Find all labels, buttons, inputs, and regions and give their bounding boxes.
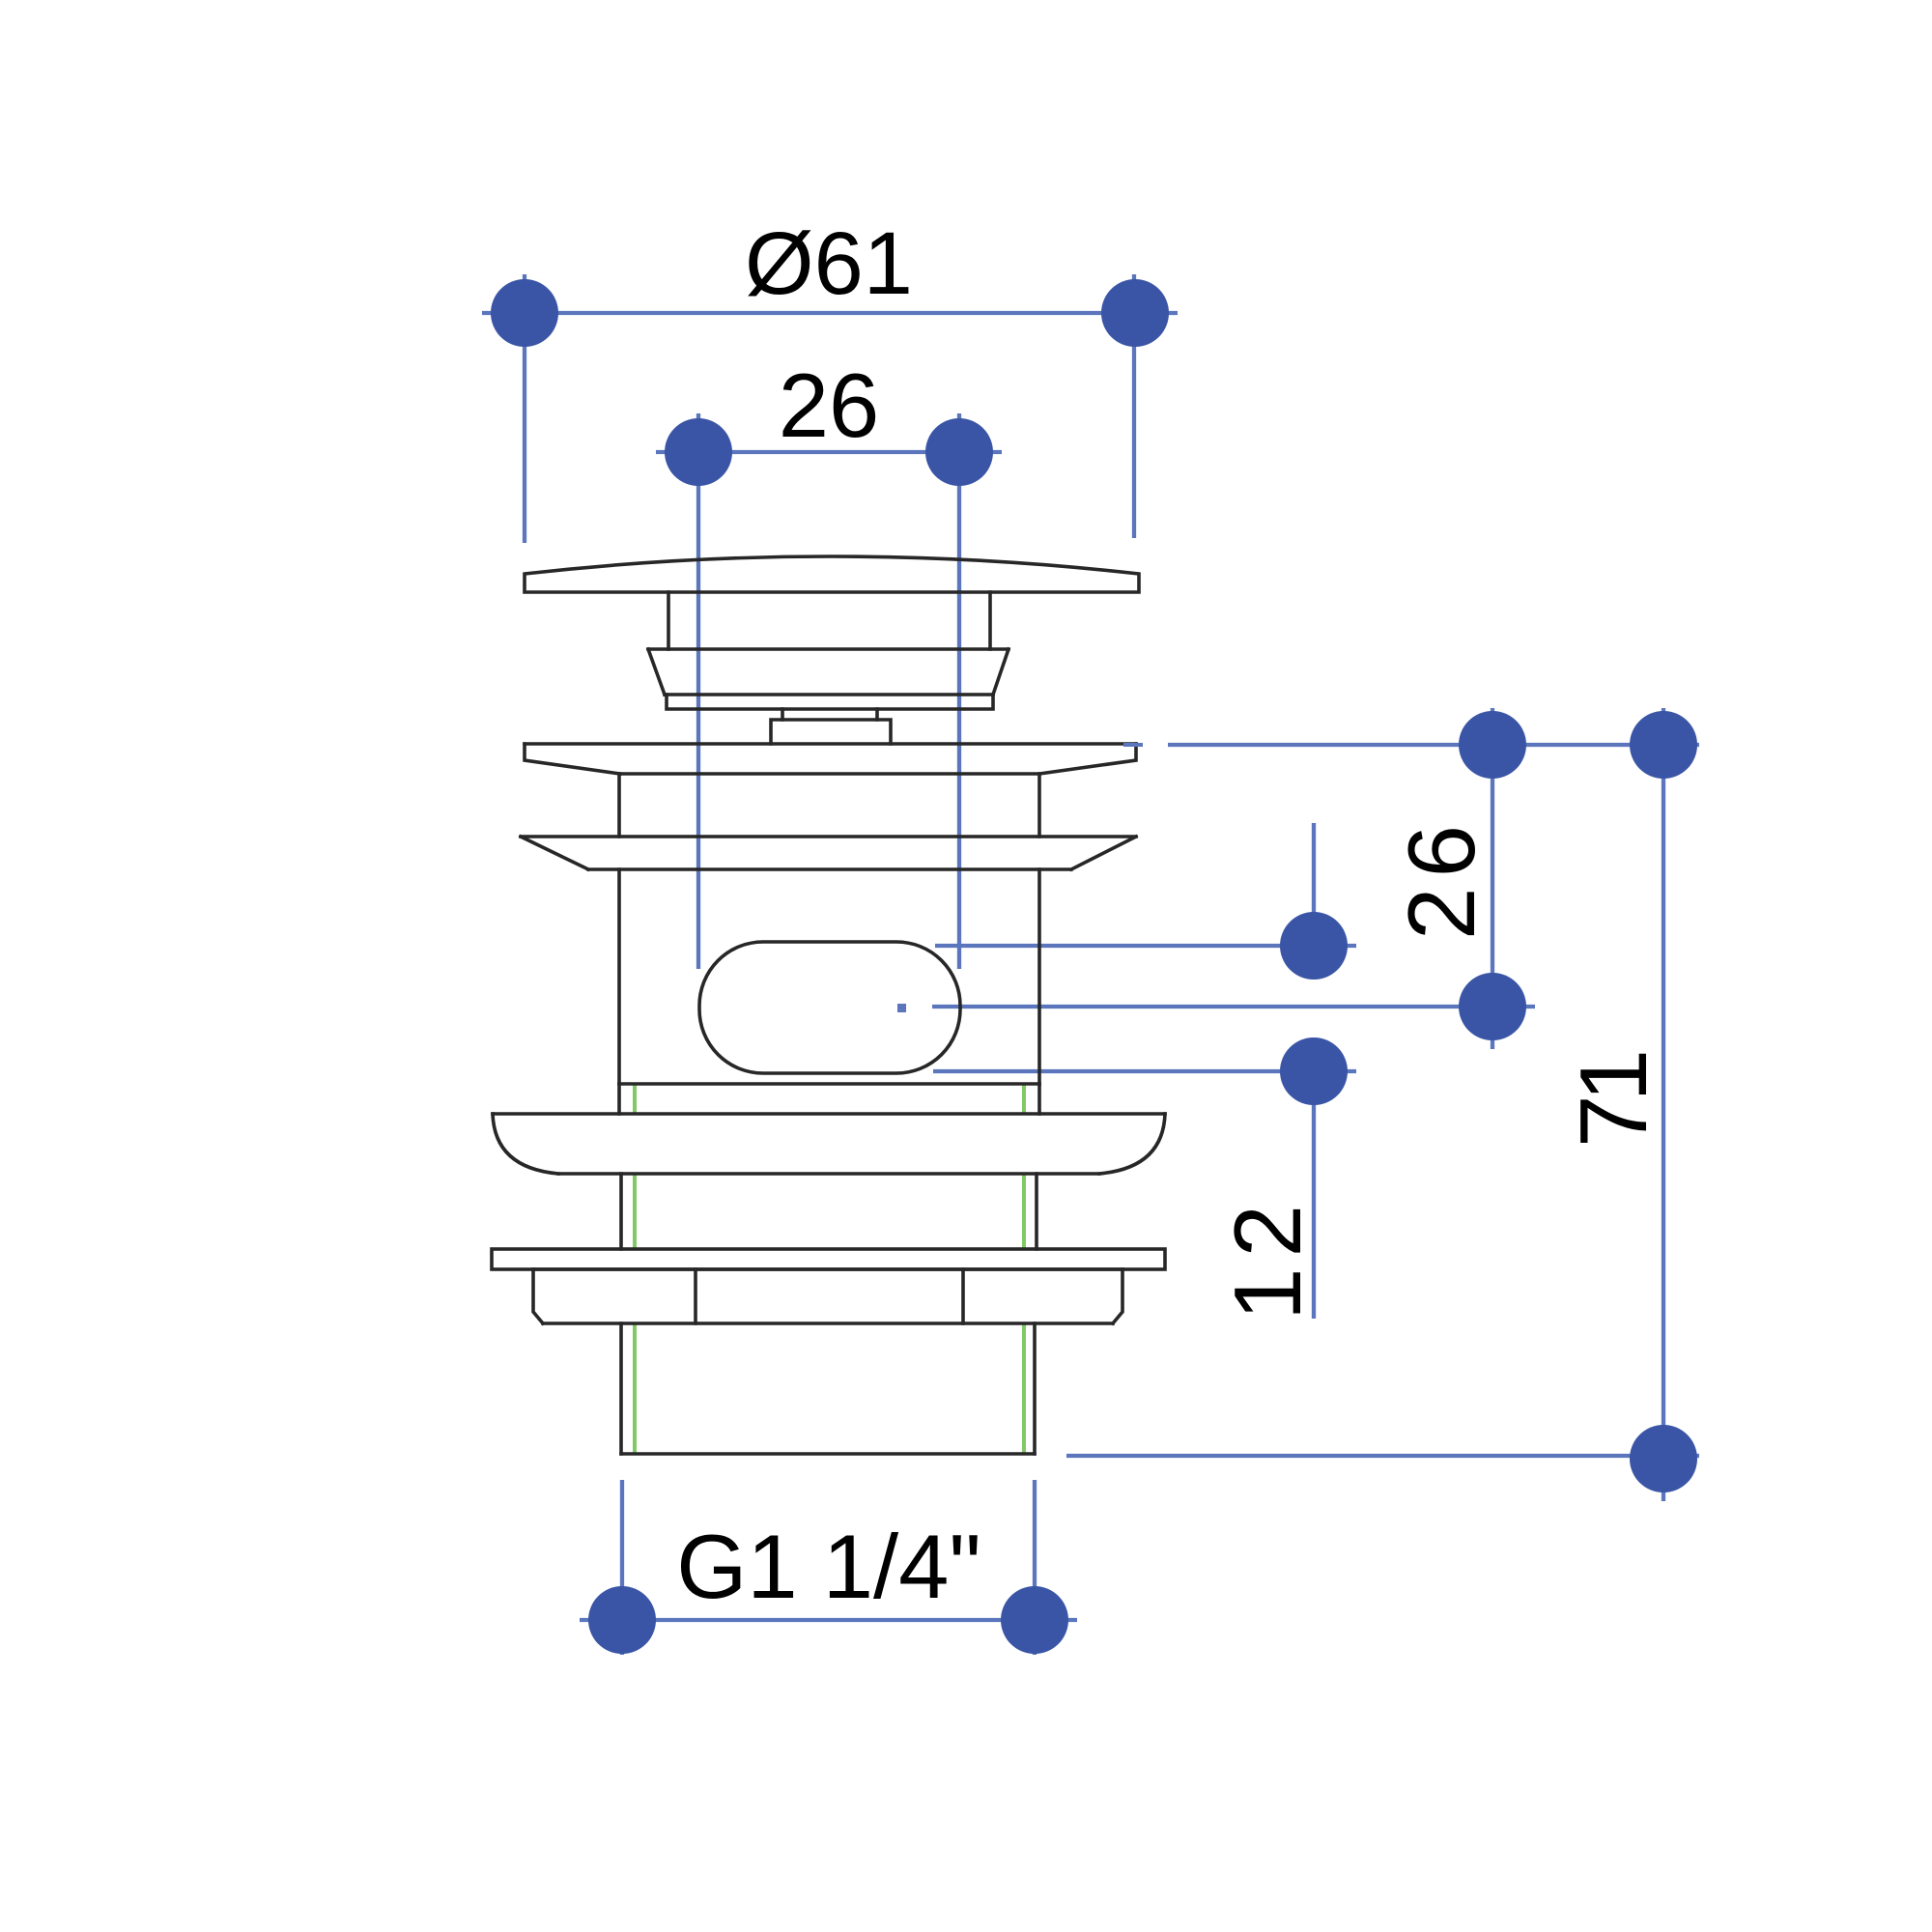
stem plate: [771, 720, 891, 744]
dim 26 top line: [656, 450, 1002, 454]
top flange left edge: [525, 744, 620, 774]
pipe wall right lower: [1033, 1323, 1037, 1454]
dim 26 right vertical: [1491, 708, 1494, 1049]
cap cone top edge: [648, 647, 1009, 651]
dim Ø61 right extension: [1132, 274, 1136, 538]
dim 12 vertical: [1312, 1071, 1316, 1319]
dot G1 right: [1001, 1586, 1068, 1654]
cone flange top edge: [521, 835, 1136, 838]
locknut top edge: [533, 1267, 1122, 1271]
top flange right edge: [1039, 744, 1136, 774]
svg-text:26: 26: [779, 355, 880, 456]
green thread line upper-left: [633, 1084, 637, 1114]
body wall right short: [1037, 1084, 1041, 1114]
green thread line mid-left: [633, 1174, 637, 1249]
cone flange left slant: [521, 837, 588, 869]
overflow slot: [699, 942, 960, 1073]
seal flange top edge: [493, 1112, 1165, 1116]
dimension lines (blue): [482, 274, 1699, 1655]
svg-text:G1 1/4": G1 1/4": [676, 1516, 981, 1617]
dot flange level left: [1459, 711, 1526, 779]
flange level leader short segment (over flange): [1123, 743, 1143, 747]
pipe bottom edge: [621, 1452, 1035, 1456]
pipe wall left lower: [619, 1323, 623, 1454]
dim G1 left extension: [620, 1480, 624, 1655]
stem right: [875, 709, 879, 720]
slot centre leader: [932, 1005, 1535, 1009]
dim Ø61 line: [482, 311, 1178, 315]
dim 71 bottom leader: [1066, 1454, 1699, 1458]
body wall right upper: [1037, 774, 1041, 837]
locknut left edge: [533, 1269, 543, 1323]
cap neck right: [988, 592, 992, 649]
green thread line upper-right: [1022, 1084, 1026, 1114]
locknut facet right: [961, 1269, 965, 1323]
thread marking green lines: [635, 1084, 1024, 1454]
top flange bottom edge: [620, 772, 1039, 776]
green thread line mid-right: [1022, 1174, 1026, 1249]
svg-text:71: 71: [1560, 1053, 1666, 1148]
top flange top edge: [525, 742, 1136, 746]
locknut bottom edge: [543, 1321, 1113, 1325]
dimension dots: [491, 279, 1697, 1654]
svg-text:12: 12: [1214, 1194, 1321, 1321]
slot centre marker: [897, 1004, 906, 1012]
seal flange right curve: [1099, 1114, 1165, 1174]
cap cone bottom edge: [665, 693, 993, 696]
seal flange left curve: [493, 1114, 558, 1174]
dot Ø61 left: [491, 279, 558, 347]
dot 71 bottom: [1630, 1425, 1697, 1492]
dim 71 vertical: [1662, 708, 1665, 1501]
flange level leader long segment: [1168, 743, 1699, 747]
basin waste component (black outlines): [492, 556, 1165, 1454]
cap top: [525, 556, 1139, 592]
slot top leader: [935, 944, 1356, 948]
locknut right edge: [1113, 1269, 1122, 1323]
svg-text:Ø61: Ø61: [745, 214, 913, 313]
cap cone left slant: [648, 649, 665, 695]
cap neck left: [667, 592, 670, 649]
locknut facet left: [694, 1269, 697, 1323]
green thread line lower-right: [1022, 1323, 1026, 1454]
cap cone right slant: [993, 649, 1009, 695]
dim Ø61 left extension: [523, 274, 526, 543]
pipe wall left upper: [619, 1174, 623, 1249]
slot top leader stub: [1312, 823, 1316, 946]
dim 26 top right extension: [957, 413, 961, 969]
body wall left short: [617, 1084, 621, 1114]
dot G1 left: [588, 1586, 656, 1654]
dot 26 top right: [925, 418, 993, 486]
dot 26 top left: [665, 418, 732, 486]
cone flange bottom edge: [588, 867, 1071, 871]
seal flange bottom edge: [558, 1172, 1099, 1176]
body bottom edge: [619, 1082, 1039, 1086]
washer plate: [492, 1249, 1165, 1269]
green thread line lower-left: [633, 1323, 637, 1454]
body wall left upper: [617, 774, 621, 837]
dot slot bottom: [1280, 1037, 1348, 1105]
dim G1 line: [580, 1618, 1077, 1622]
dot slot centre: [1459, 973, 1526, 1040]
dot flange level right: [1630, 711, 1697, 779]
stem left: [781, 709, 784, 720]
cap disc: [667, 695, 993, 709]
pipe wall right upper: [1035, 1174, 1038, 1249]
dot Ø61 right: [1101, 279, 1169, 347]
svg-text:26: 26: [1388, 815, 1494, 940]
dim G1 right extension: [1033, 1480, 1037, 1655]
cone flange right slant: [1071, 837, 1136, 869]
body wall left mid: [617, 869, 621, 1084]
body wall right mid: [1037, 869, 1041, 1084]
dot slot top: [1280, 912, 1348, 980]
dim 26 top left extension: [696, 413, 700, 969]
slot bottom leader: [933, 1069, 1356, 1073]
